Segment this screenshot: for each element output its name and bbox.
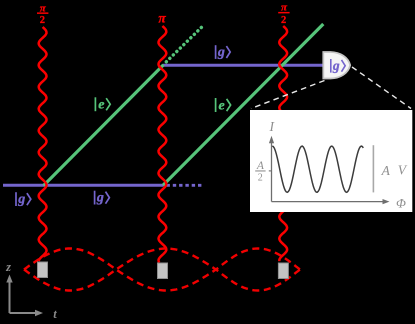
label ket |g> in detector (331, 59, 345, 73)
inset amplitude bracket bar (372, 145, 374, 192)
wire upper |g> level (solid purple) (163, 64, 324, 67)
svg-text:z: z (5, 260, 11, 274)
label pi/2 pulse 3 (278, 2, 289, 26)
label ket |g> lower-left (16, 192, 31, 206)
envelope dashed figure-eight curve B (24, 249, 300, 291)
svg-text:π: π (158, 11, 166, 26)
trap box 3 (278, 263, 288, 279)
inset y-axis I (269, 136, 390, 204)
inset fringe curve (272, 146, 363, 192)
svg-text:A: A (381, 163, 391, 178)
svg-text:t: t (53, 307, 57, 321)
trajectory dotted green continuation (166, 27, 201, 62)
callout dashed line left (251, 81, 325, 109)
pulse beam pi/2 #1 (red wavy) (39, 27, 47, 261)
pulse beam pi #2 (red wavy) (159, 26, 167, 262)
wire lower |g> level dotted continuation (167, 184, 203, 187)
label ket |g> upper level (216, 45, 231, 59)
svg-text:e: e (98, 98, 104, 113)
envelope dashed figure-eight curve A (24, 249, 300, 291)
label ket |e> arm2 (216, 98, 231, 112)
trajectory |e> arm 2 (green diagonal) (163, 24, 323, 185)
inset label A/2 fraction (255, 160, 265, 183)
trap box 1 (38, 262, 48, 278)
trajectory |e> arm 1 (green diagonal) (44, 65, 164, 186)
svg-text:g: g (17, 192, 25, 207)
svg-text:Φ: Φ (396, 196, 406, 211)
label ket |g> lower-mid (95, 191, 110, 205)
axes z-t corner (6, 275, 43, 317)
label pi/2 pulse 1 (37, 2, 48, 25)
label ket |e> arm1 (95, 97, 110, 111)
trap box 2 (158, 263, 168, 279)
svg-text:2: 2 (281, 15, 286, 26)
pulse beam pi/2 #3 (red wavy) (279, 26, 287, 261)
svg-text:2: 2 (258, 172, 263, 183)
svg-text:g: g (96, 191, 104, 206)
wire lower |g> level (solid purple) (3, 184, 164, 187)
svg-text:g: g (332, 58, 340, 73)
inset white panel (250, 110, 412, 212)
svg-text:e: e (218, 98, 224, 113)
detector D-shape (323, 52, 350, 79)
svg-text:2: 2 (40, 15, 45, 26)
svg-text:g: g (217, 45, 225, 60)
callout dashed line right (352, 67, 411, 109)
svg-text:π: π (281, 2, 288, 14)
